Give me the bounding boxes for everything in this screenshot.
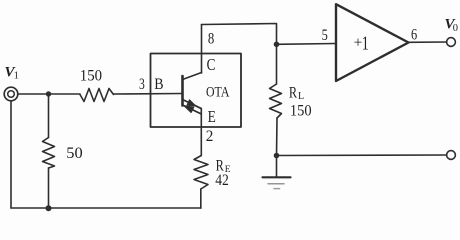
- resistor 50: [43, 138, 55, 169]
- resistor RL: [270, 84, 282, 118]
- node junction bottom rail: [46, 205, 52, 211]
- svg-text:8: 8: [208, 31, 214, 48]
- svg-text:3: 3: [139, 76, 145, 93]
- wire collector vertical to pin 8: [201, 25, 203, 74]
- label RL: [289, 85, 304, 102]
- svg-text:R: R: [289, 85, 297, 102]
- wire RL top vertical: [276, 44, 278, 84]
- svg-text:C: C: [207, 55, 216, 74]
- label V0: [445, 17, 459, 35]
- wire RL bottom vertical: [276, 118, 279, 156]
- wire bottom rail: [11, 207, 201, 209]
- wire top rail: [202, 24, 277, 45]
- transistor Q1 base bar: [181, 76, 184, 106]
- transistor Q1 emitter lower diagonal: [183, 105, 202, 114]
- op-amp U2: [336, 4, 409, 81]
- wire to op-amp pin 5: [277, 43, 337, 46]
- node junction input: [46, 91, 51, 96]
- input terminal V1: [4, 87, 18, 101]
- wire 50 ohm to bottom rail: [48, 168, 50, 208]
- svg-text:1: 1: [14, 71, 19, 82]
- svg-text:1: 1: [362, 32, 369, 54]
- ground: [263, 156, 291, 189]
- svg-text:150: 150: [290, 102, 312, 119]
- OTA box U1: [151, 54, 242, 128]
- wire emitter vertical to RE: [200, 109, 202, 156]
- node junction RL top: [274, 42, 280, 48]
- svg-text:150: 150: [80, 68, 102, 85]
- svg-text:50: 50: [66, 145, 82, 162]
- svg-text:E: E: [208, 107, 216, 126]
- wire left vertical from terminal: [10, 101, 12, 208]
- svg-text:2: 2: [206, 128, 214, 145]
- resistor 150 input: [80, 89, 114, 102]
- wire RE bottom: [200, 189, 202, 208]
- wire resistor to base: [114, 93, 183, 96]
- resistor RE: [194, 156, 208, 190]
- svg-text:5: 5: [322, 27, 328, 44]
- svg-text:L: L: [298, 91, 304, 102]
- svg-text:42: 42: [215, 172, 229, 189]
- transistor Q1 collector diagonal: [183, 73, 202, 80]
- svg-text:6: 6: [411, 26, 417, 43]
- transistor Q1 emitter arrow out: [187, 100, 196, 106]
- transistor Q1 emitter upper diagonal: [183, 100, 202, 109]
- svg-text:0: 0: [453, 23, 458, 34]
- transistor Q1 emitter arrow in: [184, 106, 193, 113]
- label +1: [354, 32, 369, 54]
- wire junction to 50 ohm: [48, 94, 50, 138]
- terminal bottom right: [447, 151, 456, 160]
- wire bottom right rail: [277, 154, 447, 157]
- svg-text:OTA: OTA: [206, 85, 230, 101]
- svg-text:B: B: [154, 76, 163, 93]
- wire op-amp output: [409, 41, 447, 43]
- label RE: [216, 158, 231, 175]
- node junction ground rail: [274, 153, 280, 159]
- wire input horizontal: [18, 93, 80, 95]
- label V1: [5, 64, 19, 81]
- output terminal V0: [447, 38, 456, 47]
